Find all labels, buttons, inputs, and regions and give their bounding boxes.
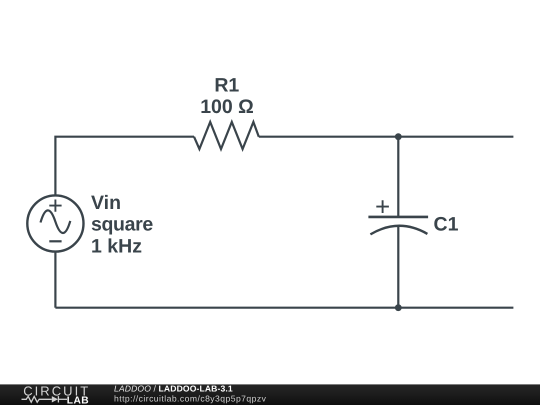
- junction node top: [395, 133, 402, 140]
- CircuitLab logo resistor-diode line: [22, 396, 68, 402]
- svg-text:http://circuitlab.com/c8y3qp5p: http://circuitlab.com/c8y3qp5p7qpzv: [114, 393, 267, 403]
- svg-text:C1: C1: [434, 213, 459, 235]
- capacitor C1: [368, 200, 428, 234]
- junction node bottom: [395, 304, 402, 311]
- voltage source Vin: [27, 195, 83, 251]
- wire bottom segment: [55, 307, 513, 309]
- svg-text:100 Ω: 100 Ω: [200, 96, 254, 118]
- capacitor C1 plus polarity mark: [376, 200, 389, 213]
- voltage source Vin minus polarity mark: [49, 240, 61, 242]
- wire top-right segment: [259, 136, 514, 138]
- wire capacitor bottom lead: [397, 226, 399, 308]
- svg-text:LAB: LAB: [67, 395, 89, 405]
- voltage source Vin plus polarity mark: [49, 200, 61, 212]
- capacitor C1 top plate: [368, 216, 428, 219]
- voltage source Vin sine waveform glyph: [41, 210, 71, 233]
- resistor R1: [194, 122, 259, 149]
- wire capacitor top lead: [397, 137, 399, 217]
- wire source bottom lead: [54, 252, 56, 308]
- wire top-left segment: [55, 137, 194, 196]
- svg-text:LADDOO / LADDOO-LAB-3.1: LADDOO / LADDOO-LAB-3.1: [114, 384, 233, 394]
- svg-text:R1: R1: [214, 75, 239, 97]
- svg-text:square: square: [91, 214, 153, 236]
- CircuitLab logo diode triangle: [52, 396, 58, 402]
- voltage source Vin circle body: [27, 195, 83, 251]
- svg-text:Vin: Vin: [91, 192, 121, 214]
- svg-text:1 kHz: 1 kHz: [91, 235, 142, 257]
- capacitor C1 curved bottom plate: [370, 226, 427, 235]
